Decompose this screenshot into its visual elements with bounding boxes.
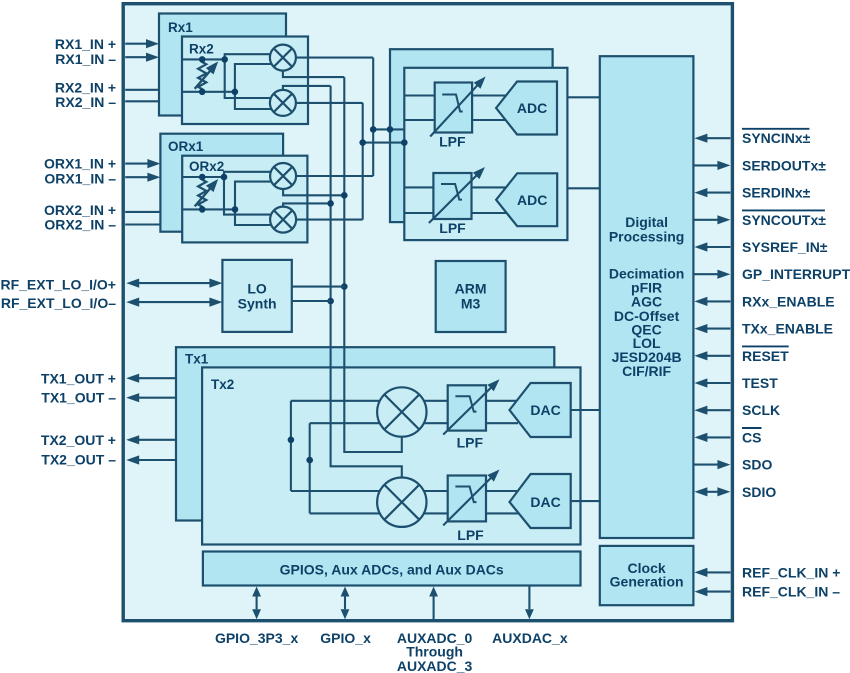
pin ORX2_IN + xyxy=(44,202,160,218)
svg-text:CIF/RIF: CIF/RIF xyxy=(622,363,671,379)
wire Rx2 M1 LO stub xyxy=(283,71,344,78)
pin SYNCOUTx± xyxy=(693,212,826,228)
wire Tx combine bus left xyxy=(290,401,292,491)
svg-text:Rx2: Rx2 xyxy=(189,41,214,56)
junction dot LO-B from LO synth xyxy=(327,298,334,305)
pin TX2_OUT – xyxy=(41,452,176,468)
svg-text:GPIO_x: GPIO_x xyxy=(320,630,371,646)
mixer ORx2 M2 xyxy=(270,207,296,233)
wire LPF2 input lower xyxy=(404,212,433,214)
overline for RESET xyxy=(742,345,789,347)
wire Tx2 M2 to LPF4 lower xyxy=(424,512,448,514)
pin TEST xyxy=(694,375,778,391)
wire ORx2 input pair upper xyxy=(182,176,224,178)
wire LPF3 to DAC1 upper xyxy=(486,400,517,402)
pin GPIO_3P3_x xyxy=(215,587,298,647)
wire LPF1 input lower xyxy=(404,119,434,121)
wire ORx2 M2 LO stub xyxy=(283,203,331,206)
chip outer boundary box xyxy=(123,4,732,621)
wire LPF4 to DAC2 upper xyxy=(486,490,517,492)
wire Rx2 input pair lower xyxy=(182,91,235,93)
mixer Rx2 M2 xyxy=(270,90,296,116)
junction dot I bus at container edge xyxy=(387,126,394,133)
wire ORx2 split to mixer M2 lower input xyxy=(235,209,272,225)
svg-text:RXx_ENABLE: RXx_ENABLE xyxy=(742,293,835,309)
block LO Synth xyxy=(222,260,291,332)
svg-text:RX2_IN –: RX2_IN – xyxy=(55,94,116,110)
mixer Tx2 M1 xyxy=(377,387,426,436)
svg-text:TXx_ENABLE: TXx_ENABLE xyxy=(742,321,833,337)
wire Rx2 M2 LO stub xyxy=(283,86,331,90)
block ORx1 xyxy=(160,134,283,232)
wire ORx2 input pair lower xyxy=(182,208,235,210)
pin TXx_ENABLE xyxy=(694,321,833,337)
svg-text:GPIO_3P3_x: GPIO_3P3_x xyxy=(215,630,298,646)
svg-text:TX1_OUT –: TX1_OUT – xyxy=(41,389,116,405)
wire LO synth output 2 xyxy=(292,300,331,302)
svg-text:ORx2: ORx2 xyxy=(189,159,224,174)
svg-text:REF_CLK_IN +: REF_CLK_IN + xyxy=(742,564,840,580)
pin RF_EXT_LO_I/O+ xyxy=(0,276,222,292)
pin REF_CLK_IN + xyxy=(694,564,840,580)
wire DAC2 from digital xyxy=(571,500,600,502)
pin AUXDAC_x xyxy=(492,586,568,647)
DAC D2 xyxy=(510,474,571,528)
wire Rx2 split to mixer M2 upper input xyxy=(225,59,271,98)
wire Rx2 input pair upper xyxy=(182,58,225,60)
svg-text:ORX2_IN –: ORX2_IN – xyxy=(44,217,116,233)
block GPIOS Aux ADCs and Aux DACs bar xyxy=(203,552,581,586)
svg-text:Digital: Digital xyxy=(625,214,668,230)
svg-text:LO: LO xyxy=(247,281,267,297)
svg-text:LPF: LPF xyxy=(457,527,484,543)
wire DAC1 from digital xyxy=(571,409,600,411)
svg-text:TX1_OUT +: TX1_OUT + xyxy=(41,370,116,386)
pin RX1_IN – xyxy=(55,51,159,67)
low-pass filter LPF4 xyxy=(443,470,499,526)
low-pass filter LPF2 xyxy=(429,167,485,223)
wire ORx2 split to mixer M1 upper input xyxy=(224,172,271,177)
pin RF_EXT_LO_I/O– xyxy=(1,295,223,311)
svg-text:DAC: DAC xyxy=(530,402,560,418)
svg-text:TX2_OUT –: TX2_OUT – xyxy=(41,452,116,468)
block Digital Processing xyxy=(600,56,694,538)
svg-text:LPF: LPF xyxy=(439,133,466,149)
pin SDO xyxy=(693,457,772,473)
wire Tx2 M2 output upper to bus xyxy=(291,490,380,492)
svg-text:SCLK: SCLK xyxy=(742,402,780,418)
wire ORx2 M1 output xyxy=(296,175,373,177)
wire ADC1 to digital xyxy=(567,96,599,98)
svg-text:ORx1: ORx1 xyxy=(168,139,204,154)
svg-text:SERDOUTx±: SERDOUTx± xyxy=(742,157,826,173)
junction dot Q bus branch xyxy=(359,139,366,146)
pin SERDOUTx± xyxy=(693,157,826,173)
wire LPF2 to ADC2 lower xyxy=(472,212,508,214)
block Rx2 xyxy=(182,37,308,125)
wire Rx2 split to mixer M2 lower input xyxy=(235,92,272,109)
wire Q-signal vertical bus to ADC mux xyxy=(362,103,364,220)
wire Rx2 M1 output xyxy=(296,57,373,59)
junction dot attenuator bottom xyxy=(199,89,206,96)
junction dot ORx2 upper split xyxy=(221,174,228,181)
wire ORx2 split to mixer M1 lower input xyxy=(235,182,272,210)
svg-text:RF_EXT_LO_I/O–: RF_EXT_LO_I/O– xyxy=(1,295,116,311)
svg-text:ORX1_IN +: ORX1_IN + xyxy=(44,155,116,171)
svg-text:ADC: ADC xyxy=(517,100,547,116)
junction dot attenuator top xyxy=(199,56,206,63)
svg-text:GP_INTERRUPT: GP_INTERRUPT xyxy=(742,266,850,282)
pin RX2_IN – xyxy=(55,94,159,110)
wire LO synth output 1 xyxy=(292,286,345,288)
svg-text:Rx1: Rx1 xyxy=(168,20,193,35)
junction dot TX2 OUT- tap xyxy=(306,457,313,464)
junction dot LO-A to ORx2 xyxy=(341,192,348,199)
wire LPF1 input upper xyxy=(404,94,434,96)
junction dot ORx2 lower split xyxy=(232,206,239,213)
wire LPF3 to DAC1 lower xyxy=(486,422,518,424)
pin GP_INTERRUPT xyxy=(693,266,850,282)
pin ORX1_IN + xyxy=(44,155,160,171)
svg-text:RX1_IN +: RX1_IN + xyxy=(55,36,116,52)
wire Tx2 M2 output lower to bus xyxy=(310,512,380,514)
wire ADC2 to digital xyxy=(567,187,599,189)
wire LPF2 to ADC2 upper xyxy=(472,186,508,188)
svg-text:SYNCINx±: SYNCINx± xyxy=(742,130,811,146)
junction dot Q bus at container edge xyxy=(401,139,408,146)
junction dot I bus branch xyxy=(370,126,377,133)
junction dot LO-A from LO synth xyxy=(341,283,348,290)
low-pass filter LPF3 xyxy=(443,379,499,434)
block Rx1 xyxy=(159,14,286,116)
junction dot Rx2 lower split xyxy=(232,89,239,96)
wire LPF4 to DAC2 lower xyxy=(486,512,518,514)
junction dot Rx2 upper split xyxy=(221,56,228,63)
svg-text:ORX1_IN –: ORX1_IN – xyxy=(44,171,116,187)
svg-text:TX2_OUT +: TX2_OUT + xyxy=(41,432,116,448)
pin RX2_IN + xyxy=(55,79,159,95)
svg-text:RF_EXT_LO_I/O+: RF_EXT_LO_I/O+ xyxy=(0,276,116,292)
wire Tx2 M1 to LPF3 lower xyxy=(424,422,448,424)
block ORx2 xyxy=(182,156,307,243)
DAC D1 xyxy=(510,383,571,437)
svg-text:Generation: Generation xyxy=(610,573,684,589)
wire Tx2 M2 to LPF4 upper xyxy=(424,490,448,492)
wire Rx2 M2 output xyxy=(296,102,363,104)
wire Tx2 M1 output lower to bus xyxy=(310,422,380,424)
pin SYNCINx± xyxy=(694,130,810,146)
pin RESET xyxy=(694,348,789,364)
pin SDIO xyxy=(694,484,776,500)
svg-text:CS: CS xyxy=(742,429,761,445)
wire Tx2 M1 to LPF3 upper xyxy=(424,400,448,402)
pin SCLK xyxy=(694,402,780,418)
mixer Tx2 M2 xyxy=(377,478,426,527)
junction dot ORx2 attenuator top xyxy=(199,174,206,181)
svg-text:SYNCOUTx±: SYNCOUTx± xyxy=(742,212,826,228)
svg-text:Processing: Processing xyxy=(609,229,684,245)
junction dot ORx2 attenuator bottom xyxy=(199,206,206,213)
svg-text:RESET: RESET xyxy=(742,348,789,364)
svg-text:ORX2_IN +: ORX2_IN + xyxy=(44,202,116,218)
attenuator ORx2 xyxy=(195,177,219,209)
mixer Rx2 M1 xyxy=(270,45,296,71)
wire Tx2 M1 output upper to bus xyxy=(291,400,380,402)
ADC A2 xyxy=(496,173,557,226)
svg-text:TEST: TEST xyxy=(742,375,778,391)
wire Rx2 split to mixer M1 upper input xyxy=(225,54,271,59)
pin ORX1_IN – xyxy=(44,171,160,187)
wire ORx2 M1 LO stub xyxy=(283,189,344,195)
wire ORx2 M2 output xyxy=(296,219,363,221)
svg-text:SERDINx±: SERDINx± xyxy=(742,185,811,201)
svg-text:RX1_IN –: RX1_IN – xyxy=(55,51,116,67)
svg-text:Synth: Synth xyxy=(238,295,277,311)
pin REF_CLK_IN – xyxy=(694,584,840,600)
mixer ORx2 M1 xyxy=(270,163,296,189)
wire LPF1 to ADC1 lower xyxy=(472,119,507,121)
block ARM M3 xyxy=(436,261,506,332)
svg-text:AUXDAC_x: AUXDAC_x xyxy=(492,630,568,646)
block Clock Generation xyxy=(600,546,694,605)
wire LO distribution bus A xyxy=(344,77,402,452)
pin TX1_OUT – xyxy=(41,389,176,405)
svg-text:SYSREF_IN±: SYSREF_IN± xyxy=(742,239,828,255)
block Tx2 xyxy=(202,367,580,544)
wire I-signal vertical bus to ADC mux xyxy=(372,58,374,176)
wire LPF2 input upper xyxy=(404,186,433,188)
pin SYSREF_IN± xyxy=(694,239,827,255)
pin TX2_OUT + xyxy=(41,432,176,448)
svg-text:Tx1: Tx1 xyxy=(185,351,209,366)
junction dot TX2 OUT+ tap xyxy=(288,437,295,444)
svg-text:LPF: LPF xyxy=(439,220,466,236)
svg-text:Tx2: Tx2 xyxy=(211,377,234,392)
svg-text:SDO: SDO xyxy=(742,457,772,473)
svg-text:ADC: ADC xyxy=(517,192,547,208)
attenuator Rx2 xyxy=(195,59,219,91)
junction dot LO-B to ORx2 xyxy=(327,200,334,207)
ADC channel container box 1 (back) xyxy=(390,49,553,222)
pin SERDINx± xyxy=(694,185,810,201)
wire LPF1 to ADC1 upper xyxy=(472,94,507,96)
svg-text:M3: M3 xyxy=(461,295,481,311)
svg-text:LPF: LPF xyxy=(457,435,484,451)
overline for SYNCINx± xyxy=(742,128,809,130)
pin RX1_IN + xyxy=(55,36,159,52)
pin TX1_OUT + xyxy=(41,370,176,386)
pin GPIO_x xyxy=(320,587,371,647)
svg-text:REF_CLK_IN –: REF_CLK_IN – xyxy=(742,584,840,600)
wire ORx2 split to mixer M2 upper input xyxy=(224,177,271,215)
wire Q bus into ADC block xyxy=(363,142,405,144)
overline for SYNCOUTx± xyxy=(742,209,825,211)
low-pass filter LPF1 xyxy=(430,77,485,137)
pin CS xyxy=(694,429,761,445)
svg-text:DAC: DAC xyxy=(530,494,560,510)
pin RXx_ENABLE xyxy=(694,293,834,309)
svg-text:SDIO: SDIO xyxy=(742,484,776,500)
block Tx1 xyxy=(176,347,554,520)
pin ORX2_IN – xyxy=(44,217,160,233)
wire Rx2 split to mixer M1 lower input xyxy=(235,64,271,92)
wire LO distribution bus B xyxy=(331,86,402,478)
svg-text:GPIOS, Aux ADCs, and Aux DACs: GPIOS, Aux ADCs, and Aux DACs xyxy=(280,562,504,578)
wire Tx combine bus right xyxy=(309,423,311,513)
ADC A1 xyxy=(496,82,557,135)
ADC channel container box 2 (front) xyxy=(404,68,567,240)
wire I bus into ADC block xyxy=(373,128,404,130)
pin AUXADC_0 Through AUXADC_3 xyxy=(397,587,473,673)
overline for CS xyxy=(742,427,762,429)
svg-text:AUXADC_3: AUXADC_3 xyxy=(397,658,473,673)
svg-text:ARM: ARM xyxy=(455,280,487,296)
